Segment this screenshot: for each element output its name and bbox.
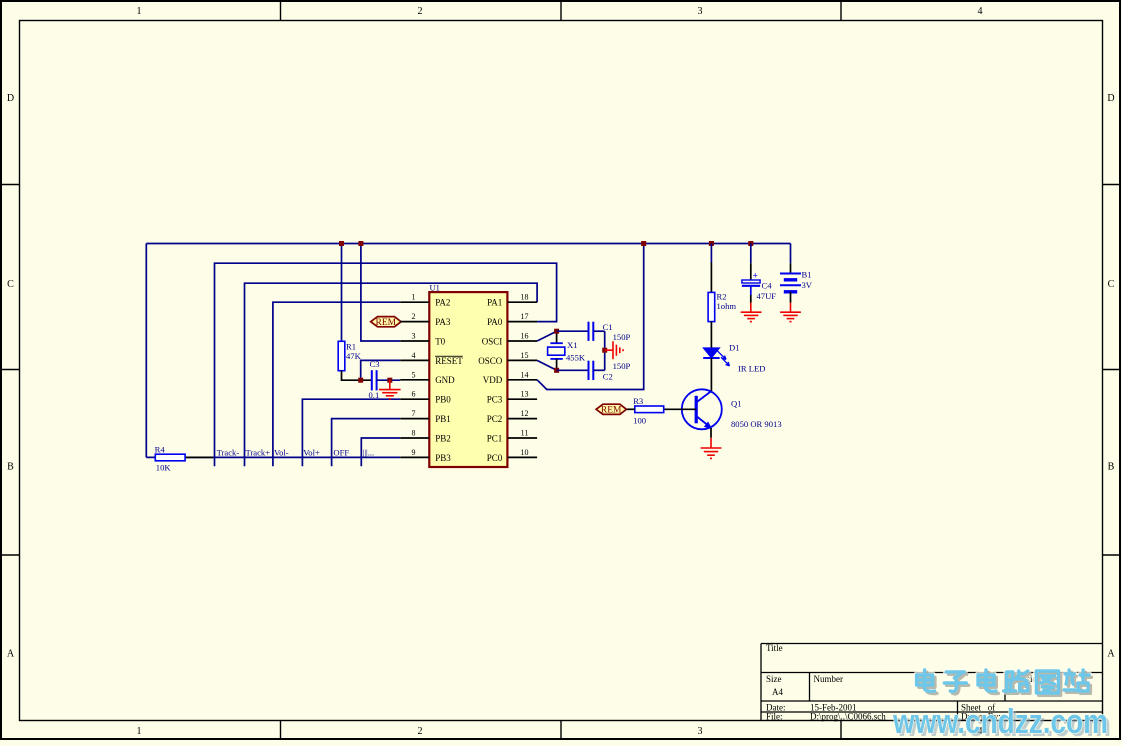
svg-text:OSCI: OSCI (482, 336, 503, 346)
wire R2 top (710, 244, 712, 263)
svg-text:150P: 150P (613, 332, 631, 342)
wire net OFF (332, 419, 401, 467)
svg-text:6: 6 (412, 390, 416, 399)
svg-text:Number: Number (814, 674, 844, 684)
ground at GND pin (379, 380, 401, 399)
wire C1-C2 vertical (604, 331, 606, 370)
U1 pin 11 PC1 (487, 429, 537, 444)
svg-text:4: 4 (412, 351, 416, 360)
LED D1 (703, 348, 719, 358)
svg-text:150P: 150P (613, 361, 631, 371)
wire left vertical to R4 (145, 244, 147, 458)
svg-text:PA1: PA1 (487, 298, 502, 308)
capacitor C2 (557, 369, 588, 371)
svg-text:GND: GND (435, 375, 455, 385)
wire net Track- (215, 263, 557, 466)
svg-text:File:: File: (766, 712, 783, 722)
junction dot (387, 378, 392, 383)
wire bottom rail to PB3 (146, 456, 400, 458)
title block text (766, 643, 1042, 722)
U1 pin 9 PB3 (400, 448, 451, 463)
svg-text:1: 1 (137, 726, 142, 737)
svg-text:17: 17 (521, 312, 529, 321)
svg-text:1ohm: 1ohm (717, 301, 737, 311)
svg-text:U1: U1 (430, 283, 440, 293)
svg-text:0.1: 0.1 (369, 390, 380, 400)
wire net Vol- (273, 302, 400, 466)
svg-text:R3: R3 (633, 396, 643, 406)
svg-text:OFF: OFF (333, 447, 349, 457)
U1 pin 18 PA1 (487, 293, 537, 308)
svg-text:REM: REM (376, 318, 397, 328)
svg-text:PB1: PB1 (435, 414, 451, 424)
wire VDD riser (537, 244, 644, 390)
wire net PB2 (361, 438, 400, 466)
U1 pin 12 PC2 (487, 409, 537, 424)
svg-text:16: 16 (521, 332, 529, 341)
power port REM (PA3) (371, 317, 401, 327)
svg-text:8: 8 (412, 429, 416, 438)
svg-text:PB2: PB2 (435, 433, 451, 443)
wire net Vol+ (302, 399, 400, 466)
resistor R1 (338, 341, 345, 370)
U1 pin 6 PB0 (400, 390, 451, 405)
svg-text:PC0: PC0 (487, 453, 503, 463)
zone ticks (280, 2, 282, 21)
wire R1 to GND net (342, 371, 372, 381)
svg-text:455K: 455K (566, 352, 586, 362)
svg-text:D:\prog\..\C0066.sch: D:\prog\..\C0066.sch (810, 712, 886, 722)
junction dot (748, 241, 753, 246)
wire REM to R3 (624, 408, 634, 410)
resistor R4 (185, 456, 213, 458)
svg-text:Track+: Track+ (246, 447, 271, 457)
svg-text:1: 1 (137, 6, 142, 17)
svg-text:2: 2 (412, 312, 416, 321)
svg-text:PC2: PC2 (487, 414, 503, 424)
svg-text:2: 2 (418, 726, 423, 737)
wire OSCO diagonal (537, 360, 557, 370)
junction dot (641, 241, 646, 246)
svg-text:3: 3 (412, 332, 416, 341)
wire B1 riser (790, 244, 792, 264)
U1 pin 17 PA0 (487, 312, 537, 327)
svg-text:18: 18 (521, 293, 529, 302)
wire R2 to D1 (710, 322, 712, 348)
wire Q1 emitter down (710, 428, 712, 438)
svg-text:1: 1 (412, 293, 416, 302)
svg-text:Vol-: Vol- (274, 447, 289, 457)
svg-text:47K: 47K (346, 351, 362, 361)
svg-text:3: 3 (698, 726, 703, 737)
wire R1 riser (341, 244, 343, 342)
svg-text:3: 3 (698, 6, 703, 17)
U1 pin 8 PB2 (400, 429, 450, 444)
svg-text:IR LED: IR LED (738, 363, 765, 373)
junction dot (339, 241, 344, 246)
title block (761, 644, 1103, 721)
U1 pin 5 GND (400, 370, 455, 385)
U1 pin 2 PA3 (400, 312, 451, 327)
svg-text:B1: B1 (802, 269, 812, 279)
U1 pin 15 OSCO (478, 351, 537, 366)
svg-text:REM: REM (601, 406, 622, 416)
svg-text:D: D (7, 93, 14, 104)
transistor Q1 (682, 389, 722, 429)
wire OSCI diagonal (537, 331, 557, 341)
svg-text:47UF: 47UF (757, 291, 777, 301)
svg-text:Title: Title (766, 643, 783, 653)
ground at Q1 emitter (701, 438, 722, 459)
svg-text:100: 100 (633, 416, 646, 426)
svg-text:8050 OR 9013: 8050 OR 9013 (731, 419, 782, 429)
svg-text:13: 13 (521, 390, 529, 399)
wire C3 to GND pin (377, 379, 401, 381)
svg-text:PA0: PA0 (487, 317, 503, 327)
ground sideways at C1C2 (605, 341, 623, 359)
wire Q1 base (664, 408, 697, 410)
wire C4 top (750, 244, 752, 264)
svg-text:VDD: VDD (483, 375, 503, 385)
U1 pin 4 RESET (400, 351, 463, 366)
svg-text:Track-: Track- (217, 447, 240, 457)
svg-text:15: 15 (521, 351, 529, 360)
U1 pin 16 OSCI (482, 332, 537, 347)
ground at C4 (741, 303, 762, 322)
junction dot (554, 368, 559, 373)
svg-text:PB3: PB3 (435, 453, 451, 463)
svg-text:A: A (7, 649, 15, 660)
svg-text:11: 11 (521, 429, 529, 438)
svg-text:C: C (7, 279, 14, 290)
U1 pin 7 PB1 (400, 409, 450, 424)
wire net Track+ (245, 283, 538, 466)
svg-text:A: A (1107, 649, 1115, 660)
svg-text:4: 4 (978, 6, 983, 17)
svg-text:Q1: Q1 (731, 399, 742, 409)
svg-text:Size: Size (766, 674, 782, 684)
svg-text:9: 9 (412, 448, 416, 457)
svg-text:3V: 3V (802, 280, 813, 290)
junction dot (709, 241, 714, 246)
op-amp U1 IC body (429, 292, 507, 467)
svg-text:12: 12 (521, 409, 529, 418)
svg-text:D1: D1 (729, 343, 740, 353)
junction dot (554, 329, 559, 334)
svg-text:5: 5 (412, 370, 416, 379)
watermark line1 (917, 670, 935, 691)
svg-text:B: B (1108, 462, 1115, 473)
resistor R3 (635, 406, 664, 413)
svg-text:D: D (1107, 93, 1114, 104)
capacitor C3 (371, 370, 373, 390)
junction dot (602, 348, 607, 353)
svg-text:T0: T0 (435, 336, 445, 346)
svg-text:C1: C1 (603, 322, 613, 332)
wire RESET riser (361, 360, 401, 380)
svg-text:RESET: RESET (435, 356, 463, 366)
svg-text:PA2: PA2 (435, 298, 450, 308)
svg-text:PB0: PB0 (435, 395, 451, 405)
U1 pin 10 PC0 (487, 448, 537, 463)
svg-text:PA3: PA3 (435, 317, 451, 327)
svg-text:B: B (7, 462, 14, 473)
wire D1 to Q1 collector (710, 358, 712, 391)
U1 pin 3 T0 (400, 332, 445, 347)
svg-text:Vol+: Vol+ (303, 447, 320, 457)
resistor R2 (708, 292, 715, 321)
wire C4 bottom (750, 286, 752, 295)
svg-text:C4: C4 (762, 281, 773, 291)
svg-text:C: C (1108, 279, 1115, 290)
svg-text:X1: X1 (567, 340, 578, 350)
svg-text:+: + (753, 271, 758, 281)
crystal X1 (556, 331, 558, 343)
ground at B1 (780, 303, 801, 322)
junction dot (358, 378, 363, 383)
svg-text:2: 2 (418, 6, 423, 17)
junction dot (358, 241, 363, 246)
svg-text:R4: R4 (155, 444, 166, 454)
battery B1 (780, 274, 801, 292)
wire VDD top rail (146, 243, 790, 245)
U1 pin 1 PA2 (400, 293, 450, 308)
svg-text:OSCO: OSCO (478, 356, 503, 366)
svg-text:C2: C2 (603, 372, 613, 382)
U1 pin 14 VDD (483, 370, 537, 385)
capacitor C1 (557, 330, 588, 332)
wire B1 bottom (790, 292, 792, 303)
svg-text:R2: R2 (717, 292, 727, 302)
svg-text:C3: C3 (370, 359, 380, 369)
svg-text:PC3: PC3 (487, 395, 503, 405)
power port REM (base) (596, 404, 626, 414)
svg-text:www.cndzz.com: www.cndzz.com (892, 703, 1108, 741)
U1 pin 13 PC3 (487, 390, 537, 405)
svg-text:10K: 10K (156, 462, 172, 472)
svg-text:7: 7 (412, 409, 416, 418)
svg-text:A4: A4 (772, 687, 783, 697)
svg-text:|||...: |||... (363, 447, 375, 457)
svg-text:10: 10 (521, 448, 529, 457)
wire T0 riser (361, 244, 400, 342)
svg-text:14: 14 (521, 370, 529, 379)
svg-text:PC1: PC1 (487, 433, 503, 443)
